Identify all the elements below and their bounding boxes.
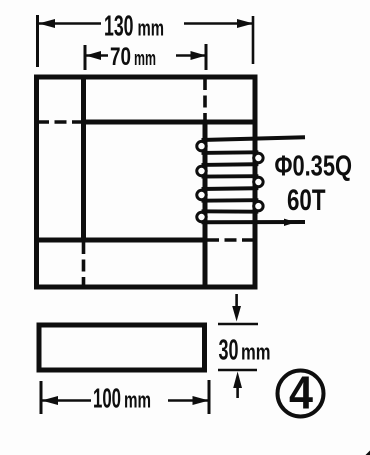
I-bar lamination outline (100mm x 30mm) [39, 325, 205, 370]
core right limb inner edge (solid part) [203, 121, 208, 287]
winding W1 left loop 4 [197, 212, 206, 221]
winding W1 right loop 1 [254, 153, 263, 162]
100mm dimension line right segment [168, 399, 208, 402]
winding W1 bottom lead wire [202, 220, 306, 224]
winding W1 bottom lead arrowhead [284, 219, 296, 226]
winding W1 top lead wire [202, 137, 306, 140]
winding W1 left loop 1 [197, 141, 206, 150]
winding W1 turn wire 2 [202, 162, 259, 167]
30mm bottom extension tick [218, 369, 257, 372]
winding W1 turn wire 6 [202, 209, 259, 213]
70mm left arrowhead [86, 51, 102, 60]
svg-text:130: 130 [104, 11, 134, 43]
70mm left extension line [84, 45, 87, 70]
winding W1 right loop 2 [254, 177, 263, 186]
svg-text:4: 4 [289, 367, 313, 419]
core left limb inner edge (solid part) [81, 75, 86, 240]
30mm upper arrowhead (points down) [232, 306, 241, 322]
svg-text:mm: mm [134, 48, 156, 70]
svg-text:30: 30 [219, 335, 239, 367]
130mm right arrowhead [237, 19, 254, 28]
dimension 100mm [41, 380, 209, 414]
core left limb inner edge hidden (dashed part) [82, 242, 86, 287]
30mm top extension tick [218, 323, 258, 326]
core window bottom edge hidden (dashed right segment) [207, 238, 255, 242]
winding W1 left loop 3 [197, 190, 206, 199]
100mm dimension line left segment [42, 399, 91, 402]
dimension 130mm [38, 15, 254, 67]
100mm left arrowhead [42, 396, 59, 405]
svg-text:mm: mm [124, 388, 151, 413]
svg-text:mm: mm [241, 340, 271, 365]
core outer outline (130mm square) [37, 77, 256, 287]
30mm lower arrowhead (points up) [233, 372, 242, 389]
70mm right extension line [205, 44, 208, 70]
winding W1 turn wire 4 [202, 186, 259, 191]
30mm lower arrow line [236, 386, 239, 398]
svg-text:Φ0.35Q: Φ0.35Q [275, 151, 353, 183]
winding W1 turn wire 1 [202, 150, 259, 154]
svg-text:70: 70 [110, 43, 131, 71]
130mm left extension line [36, 15, 39, 67]
130mm dimension line left segment [39, 22, 102, 25]
70mm dimension line right segment [176, 54, 205, 57]
svg-text:100: 100 [93, 383, 121, 414]
130mm right extension line [252, 16, 255, 64]
page corner artifact [366, 451, 370, 455]
svg-text:mm: mm [138, 16, 165, 41]
30mm upper arrow line [235, 294, 238, 310]
core right limb inner edge hidden (dashed part) [203, 78, 207, 120]
svg-text:60T: 60T [287, 184, 326, 217]
core window top edge (solid) [84, 120, 256, 125]
130mm left arrowhead [39, 19, 56, 28]
100mm right extension line [208, 380, 211, 414]
core window top edge hidden (dashed left segment) [37, 120, 84, 124]
winding W1 turn wire 5 [202, 198, 259, 202]
dimension 70mm [85, 44, 206, 70]
130mm dimension line right segment [184, 22, 253, 25]
winding W1 left loop 2 [197, 166, 206, 175]
100mm right arrowhead [193, 396, 210, 405]
winding W1 turn wire 3 [202, 174, 259, 178]
winding W1 right loop 3 [254, 201, 263, 210]
70mm dimension line left segment [86, 54, 108, 57]
figure number circled 4 [278, 371, 324, 417]
70mm right arrowhead [191, 51, 207, 60]
100mm left extension line [40, 381, 43, 414]
dimension 30mm [218, 294, 258, 398]
core window bottom edge (solid) [37, 238, 206, 243]
